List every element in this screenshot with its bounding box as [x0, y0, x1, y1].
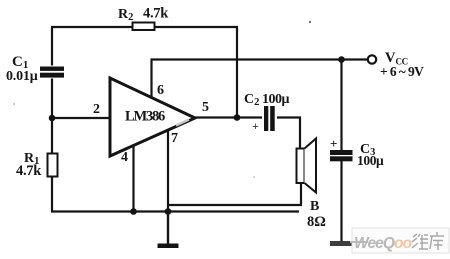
wire: output pin 5	[194, 116, 263, 118]
wire: C3 bottom lead	[340, 161, 342, 243]
wire: pin 2 input	[52, 117, 111, 119]
wire: speaker return horizontal	[167, 204, 302, 206]
node C: Vcc/C3 junction	[338, 56, 345, 63]
node A: pin2/C1/R1 junction	[49, 115, 56, 122]
wire: pin 7 vertical	[167, 130, 169, 212]
svg-text:0.01μ: 0.01μ	[6, 69, 38, 84]
Vcc terminal	[368, 50, 424, 79]
watermark CJK 维	[412, 234, 428, 249]
wire: speaker bottom vertical	[300, 182, 302, 206]
wire: speaker top vertical	[299, 117, 301, 150]
wire: Vcc rail	[151, 58, 368, 60]
op-amp U1 LM386	[110, 78, 195, 156]
resistor R2	[118, 6, 169, 31]
wire: top feedback rail	[51, 26, 238, 28]
node D: pin4/rail junction	[130, 208, 137, 215]
svg-text:4.7k: 4.7k	[16, 163, 42, 179]
capacitor C3	[330, 136, 384, 168]
wire: Vcc vertical to C3	[340, 60, 342, 151]
svg-text:5: 5	[202, 100, 209, 115]
watermark CJK 库	[430, 232, 444, 250]
wire: left vertical C1/R1 branch	[51, 27, 53, 212]
wire: pin 6 vertical	[150, 60, 152, 99]
capacitor C1	[6, 54, 64, 84]
svg-text:+ 6 ~ 9V: + 6 ~ 9V	[380, 64, 424, 79]
resistor R1	[16, 151, 58, 179]
wire: C2 to speaker	[276, 116, 301, 118]
svg-text:4: 4	[121, 150, 128, 165]
node B: output/feedback junction	[234, 114, 241, 121]
wire: pin 4 vertical	[132, 145, 134, 212]
svg-text:2: 2	[93, 102, 100, 117]
svg-text:WeeQoo: WeeQoo	[354, 235, 412, 252]
wire: feedback vertical down to output	[236, 26, 238, 118]
svg-text:100μ: 100μ	[262, 92, 290, 107]
wire: ground stem	[167, 211, 169, 244]
ground C3 (gray bar)	[330, 241, 352, 246]
node E: pin7/ground junction	[165, 208, 172, 215]
svg-text:4.7k: 4.7k	[143, 6, 169, 22]
svg-text:100μ: 100μ	[357, 153, 384, 168]
ground	[158, 244, 179, 249]
svg-text:6: 6	[157, 83, 164, 98]
speaker B	[297, 139, 326, 231]
svg-text:LM386: LM386	[125, 109, 165, 125]
svg-text:+: +	[330, 136, 337, 151]
svg-text:7: 7	[171, 131, 178, 146]
wire: bottom ground rail	[51, 210, 299, 212]
svg-text:+: +	[252, 119, 259, 133]
svg-text:B: B	[310, 199, 319, 214]
svg-text:8Ω: 8Ω	[307, 214, 326, 230]
capacitor C2	[244, 92, 290, 133]
watermark WeeQoo	[350, 228, 449, 253]
